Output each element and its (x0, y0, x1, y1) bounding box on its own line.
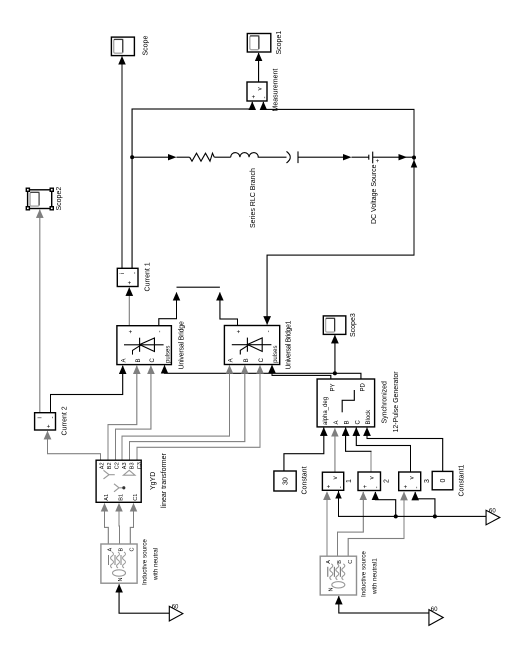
svg-text:-: - (263, 97, 269, 99)
svg-text:A: A (229, 358, 235, 362)
svg-text:-: - (133, 272, 139, 274)
svg-text:v: v (409, 476, 416, 480)
wire: source1 phase A to v-meter1 + (326, 492, 328, 556)
block: Current 2 (35, 413, 56, 430)
wire: source phase B to transformer B1 (118, 504, 121, 545)
svg-text:DC Voltage Source: DC Voltage Source (371, 164, 378, 224)
label: Synchronized 12-Pulse Generator (382, 371, 401, 433)
svg-text:Scope: Scope (143, 36, 150, 56)
svg-text:C: C (259, 357, 265, 362)
node: junction common line / v3 riser (433, 514, 437, 518)
block: Universal Bridge (117, 326, 171, 365)
node: junction common line / v2 riser (394, 514, 398, 518)
label: Universal Bridge1 (286, 321, 293, 370)
label: Scope2 (56, 187, 63, 211)
wire: v-meter 1 output to generator A (334, 429, 336, 473)
wire: transformer A3 to Universal Bridge1 A (122, 366, 230, 461)
svg-text:+: + (252, 95, 258, 99)
svg-text:N: N (329, 588, 335, 592)
source port labels (108, 548, 136, 582)
label: Constant (302, 466, 309, 494)
svg-text:A: A (326, 560, 332, 564)
block: Scope3 (323, 316, 346, 335)
svg-text:Measurement: Measurement (273, 69, 280, 112)
svg-text:60: 60 (172, 605, 179, 611)
node tag triangle 2 (source1 neutral) (429, 610, 443, 626)
label: Scope3 (350, 313, 357, 337)
wire: Measurement - input from DC- node (263, 102, 414, 158)
svg-text:A: A (108, 548, 114, 552)
block: Constant (30) (274, 471, 296, 491)
svg-text:-: - (266, 330, 272, 332)
svg-text:+: + (128, 281, 134, 285)
block: Scope1 (247, 34, 270, 53)
svg-text:v: v (257, 87, 264, 91)
wire: DC- node to Universal Bridge1 minus terminal (267, 158, 414, 325)
svg-text:Constant: Constant (302, 466, 309, 494)
svg-text:+: + (363, 484, 369, 488)
port labels of 12-Pulse Generator (323, 382, 372, 425)
node: junction on PD line to Scope3 (333, 371, 337, 375)
label: Constant1 (459, 464, 466, 496)
wire: common line riser to v-meter3 - (415, 492, 435, 516)
thyristor icon of Universal Bridge1 (232, 338, 272, 355)
block: Inductive source with neutral (101, 544, 137, 583)
svg-text:C: C (130, 548, 136, 552)
svg-text:C: C (355, 420, 361, 425)
port labels of Universal Bridge (122, 330, 172, 364)
wire: 12-pulse generator PY output to Universal Bridge1 pulses (272, 365, 331, 379)
wire: transformer B3 to Universal Bridge1 B (130, 366, 245, 461)
wire: Constant 30 to alpha_deg (284, 428, 324, 471)
label: Current 2 (62, 406, 69, 435)
wire: source1 phase B to v-meter2 + (338, 492, 364, 556)
svg-text:A2: A2 (100, 462, 106, 469)
block: Scope (111, 37, 134, 56)
block: Inductive source with neutral1 (320, 556, 356, 595)
pulse waveform icon (342, 390, 354, 412)
svg-text:0: 0 (440, 479, 447, 483)
svg-text:+: + (128, 330, 134, 334)
svg-text:B1: B1 (118, 494, 124, 501)
svg-text:-: - (50, 417, 56, 419)
svg-text:PD: PD (360, 382, 366, 391)
svg-text:v: v (369, 476, 376, 480)
label: YgYD linear transformer (150, 452, 168, 508)
capacitor of Series RLC Branch (287, 151, 299, 163)
svg-text:B: B (345, 420, 351, 424)
source1 icon: AC machine circle and coils (328, 564, 345, 588)
svg-text:12-Pulse Generator: 12-Pulse Generator (393, 371, 400, 433)
svg-text:A: A (122, 358, 128, 362)
svg-text:i: i (38, 417, 44, 418)
block: v-meter 2 (358, 472, 381, 491)
wire with flow arrow (298, 154, 369, 160)
wire: v-meters common minus line to node tag (335, 490, 486, 516)
wire: transformer B2 to Universal Bridge B (108, 366, 137, 460)
svg-text:-: - (158, 331, 164, 333)
svg-text:Universal Bridge1: Universal Bridge1 (286, 321, 293, 370)
svg-text:YgYD: YgYD (150, 472, 157, 490)
svg-text:N: N (118, 578, 124, 582)
block: Measurement (voltage measurement) (247, 82, 267, 101)
transformer winding icons (104, 470, 136, 492)
transformer port labels (100, 462, 144, 501)
label: Measurement (273, 69, 280, 112)
svg-text:60: 60 (431, 607, 438, 613)
svg-text:B: B (337, 560, 343, 564)
node: junction DC- rail / RLC branch bottom (412, 156, 416, 160)
block: v-meter 1 (voltage measurement) (322, 472, 343, 490)
label: Scope1 (276, 31, 283, 55)
wire: v-meter 2 output to generator B (370, 451, 372, 472)
node tag triangle 3 (source neutral) (169, 606, 183, 621)
wire: Current2 physical output to Universal Bridge A (51, 366, 123, 413)
svg-text:2: 2 (384, 479, 391, 483)
label: Scope (143, 36, 150, 56)
label: Series RLC Branch (250, 168, 257, 228)
svg-text:C: C (150, 358, 156, 363)
wire: transformer A2 to Current2 input (48, 431, 101, 460)
wire: node tag to source1 neutral (339, 596, 429, 613)
block: Scope2 (selected) (26, 188, 54, 211)
svg-text:Series RLC Branch: Series RLC Branch (250, 168, 257, 228)
svg-text:with neutral1: with neutral1 (372, 558, 379, 595)
svg-text:Universal Bridge: Universal Bridge (179, 321, 186, 369)
node tag triangle 1 (v-meters common) (486, 510, 500, 525)
wire: source phase C to transformer C1 (130, 504, 133, 545)
label: 2 (384, 479, 391, 483)
block: Synchronized 12-Pulse Generator (317, 379, 375, 427)
svg-text:-: - (415, 487, 421, 489)
svg-text:v: v (332, 476, 339, 480)
port labels of Universal Bridge1 (229, 329, 279, 363)
svg-text:C1: C1 (133, 494, 139, 501)
wire: source1 phase C to v-meter3 + (348, 492, 404, 556)
svg-text:+: + (47, 424, 53, 428)
svg-text:C: C (348, 560, 354, 564)
label: Inductive source with neutral1 (361, 551, 379, 597)
arrow: DC- rail into junction (411, 160, 417, 168)
label: DC Voltage Source (371, 164, 378, 224)
svg-text:pulses: pulses (165, 346, 171, 363)
battery: DC Voltage Source (369, 152, 373, 164)
wire: common line riser to v-meter2 - (375, 492, 395, 516)
svg-text:Inductive source: Inductive source (361, 551, 368, 597)
block: Constant1 (0) (432, 471, 453, 489)
wire (258, 156, 287, 158)
label: Universal Bridge (179, 321, 186, 369)
label: Inductive source with neutral (142, 539, 160, 585)
svg-text:-: - (375, 486, 381, 488)
svg-text:+: + (327, 484, 333, 488)
svg-text:with neutral: with neutral (153, 548, 160, 581)
wire: Universal Bridge plus to Current1 input (128, 288, 130, 326)
svg-text:A: A (334, 420, 340, 424)
wire: transformer C2 to Universal Bridge C (116, 366, 151, 460)
svg-text:B: B (136, 358, 142, 362)
wire: 12-pulse generator PD output to Universal Bridge pulses (165, 365, 361, 379)
svg-text:-: - (338, 486, 344, 488)
wire: Current1 physical output to DC+ rail and Measurement + (132, 102, 252, 268)
label: 1 (346, 479, 353, 483)
wire: Measurement output to Scope1 (258, 53, 260, 82)
svg-text:Block: Block (366, 409, 372, 425)
wire: source phase A to transformer A1 (105, 504, 109, 545)
svg-text:B2: B2 (107, 462, 113, 469)
block: Current 1 (117, 268, 138, 286)
svg-text:Synchronized: Synchronized (382, 381, 389, 424)
svg-text:1: 1 (346, 479, 353, 483)
svg-text:60: 60 (489, 508, 496, 514)
svg-text:A1: A1 (104, 494, 110, 501)
label: 3 (424, 479, 431, 483)
wire with flow arrow to DC- rail (373, 154, 414, 160)
wire: Current1 i-signal to Scope (121, 57, 123, 269)
svg-text:alpha_deg: alpha_deg (323, 397, 329, 425)
wire: PD line tap to Scope3 (334, 335, 336, 373)
label: Current 1 (145, 262, 152, 291)
svg-text:Current 2: Current 2 (62, 406, 69, 435)
svg-text:B: B (119, 548, 125, 552)
wire: Constant1 0 to generator Block (367, 428, 443, 472)
svg-text:pulses: pulses (273, 346, 279, 363)
svg-text:Scope1: Scope1 (276, 31, 283, 55)
svg-text:+: + (403, 485, 409, 489)
svg-text:A3: A3 (122, 462, 128, 469)
source icon: AC machine circle and coils (109, 552, 126, 576)
inductor of Series RLC Branch (231, 153, 259, 158)
block: v-meter 3 (399, 472, 421, 491)
wire: Universal Bridge minus to link node (159, 293, 177, 326)
svg-text:Current 1: Current 1 (145, 262, 152, 291)
svg-text:B: B (244, 358, 250, 362)
block: Universal Bridge1 (224, 326, 279, 365)
block: YgYD linear transformer (96, 460, 141, 502)
svg-text:3: 3 (424, 479, 431, 483)
wire: transformer C3 to Universal Bridge1 C (137, 366, 260, 461)
node: junction DC+ rail / RLC branch top (130, 155, 134, 159)
wire: Universal Bridge1 plus to link node (220, 293, 238, 326)
wire: link line between bridges (177, 286, 220, 288)
svg-text:Inductive source: Inductive source (142, 539, 149, 585)
source1 port labels (326, 560, 354, 592)
svg-text:Scope2: Scope2 (56, 187, 63, 211)
DC Voltage Source plus sign (376, 159, 382, 163)
wire: Current2 i-signal to Scope2 (39, 210, 41, 413)
wire: DC+ rail down into RLC branch (132, 154, 190, 160)
svg-text:+: + (237, 329, 243, 333)
svg-text:Scope3: Scope3 (350, 313, 357, 337)
svg-text:C2: C2 (115, 462, 121, 469)
svg-text:Constant1: Constant1 (459, 464, 466, 496)
svg-text:B3: B3 (130, 462, 136, 469)
wire (214, 156, 230, 158)
svg-text:PY: PY (330, 383, 336, 391)
svg-text:linear transformer: linear transformer (161, 452, 168, 508)
wire: v-meter 3 output to generator C (356, 428, 410, 472)
thyristor icon of Universal Bridge (124, 338, 164, 355)
svg-text:+: + (376, 159, 382, 163)
svg-text:C3: C3 (137, 462, 143, 469)
svg-text:i: i (120, 273, 126, 274)
resistor of Series RLC Branch (190, 153, 215, 161)
svg-text:30: 30 (283, 477, 290, 485)
wire: node tag to source neutral (119, 584, 169, 613)
